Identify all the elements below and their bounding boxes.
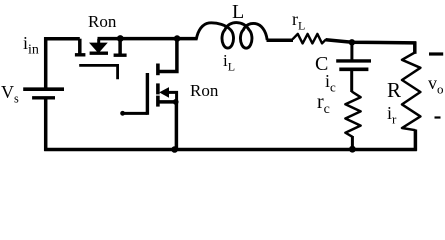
capacitor C top plate: [336, 59, 371, 62]
transistor Q1 gate bar: [79, 65, 117, 79]
minus sign below vo: [435, 116, 441, 118]
wire top-right corner down to R: [413, 42, 417, 54]
node at Q1 right terminal / switch output: [117, 35, 124, 42]
bottom rail: [44, 148, 417, 152]
wire top rail from diode to inductor: [98, 37, 198, 41]
wire rc to bottom rail: [351, 136, 354, 150]
label Ron (top switch): [88, 13, 116, 30]
label i_c: [325, 72, 336, 90]
inductor L coil: [196, 23, 267, 49]
label i_r: [387, 104, 396, 122]
label C: [315, 54, 328, 74]
transistor Q2 channel drain segment: [156, 64, 160, 76]
transistor Q2 source stub: [159, 100, 177, 104]
transistor Q2 channel source segment: [156, 96, 160, 107]
transistor Q1 body-diode cathode bar: [90, 52, 108, 55]
transistor Q1 body-diode triangle: [91, 43, 106, 52]
label r_c: [317, 92, 330, 112]
capacitor C bottom plate: [339, 68, 368, 72]
resistor R zigzag: [402, 53, 420, 131]
node Q2 drain on top rail: [174, 35, 181, 42]
wire rL to top-right corner: [326, 40, 417, 43]
battery Vs short plate: [32, 96, 55, 99]
minus sign near top right: [429, 52, 443, 55]
label i_in: [23, 34, 39, 52]
node rc on bottom rail: [349, 146, 356, 153]
wire Q2 source to bottom rail: [175, 102, 179, 150]
wire top-left rail from corner to switch left terminal: [44, 37, 80, 41]
node Q2 source on bottom rail: [171, 146, 178, 153]
transistor Q2 body arrow head: [159, 87, 169, 98]
label Vs: [1, 83, 19, 101]
transistor Q1 left terminal foot: [75, 53, 86, 56]
capacitor C lead from rail: [350, 42, 353, 60]
resistor rc zigzag: [345, 92, 360, 137]
label i_L: [223, 52, 235, 69]
node capacitor branch on top rail: [349, 39, 355, 45]
wire capacitor to resistor rc: [350, 71, 353, 92]
label v_o: [428, 74, 444, 92]
wire battery to bottom rail: [44, 98, 48, 152]
transistor Q1 left terminal lead: [78, 39, 82, 54]
transistor Q2 channel body segment: [156, 83, 160, 94]
transistor Q1 right terminal foot: [114, 54, 127, 57]
label r_L: [292, 10, 305, 28]
transistor Q1 body-diode stub: [97, 39, 100, 44]
label Ron (lower MOSFET): [190, 82, 218, 99]
wire inductor to resistor rL: [267, 39, 294, 43]
wire left vertical (source branch): [44, 37, 48, 88]
label L: [232, 2, 244, 22]
resistor rL zigzag: [293, 34, 327, 44]
transistor Q1 right terminal lead: [118, 39, 122, 54]
label R: [387, 80, 401, 101]
transistor Q2 body stub: [166, 92, 177, 102]
transistor Q2 gate lead wire: [122, 112, 148, 115]
wire R to bottom rail: [414, 130, 418, 151]
battery Vs long plate: [23, 87, 64, 91]
wire Q2 drain to top rail: [159, 38, 177, 72]
transistor Q2 gate bar: [146, 73, 149, 115]
node Q2 source-body tie: [173, 99, 179, 105]
